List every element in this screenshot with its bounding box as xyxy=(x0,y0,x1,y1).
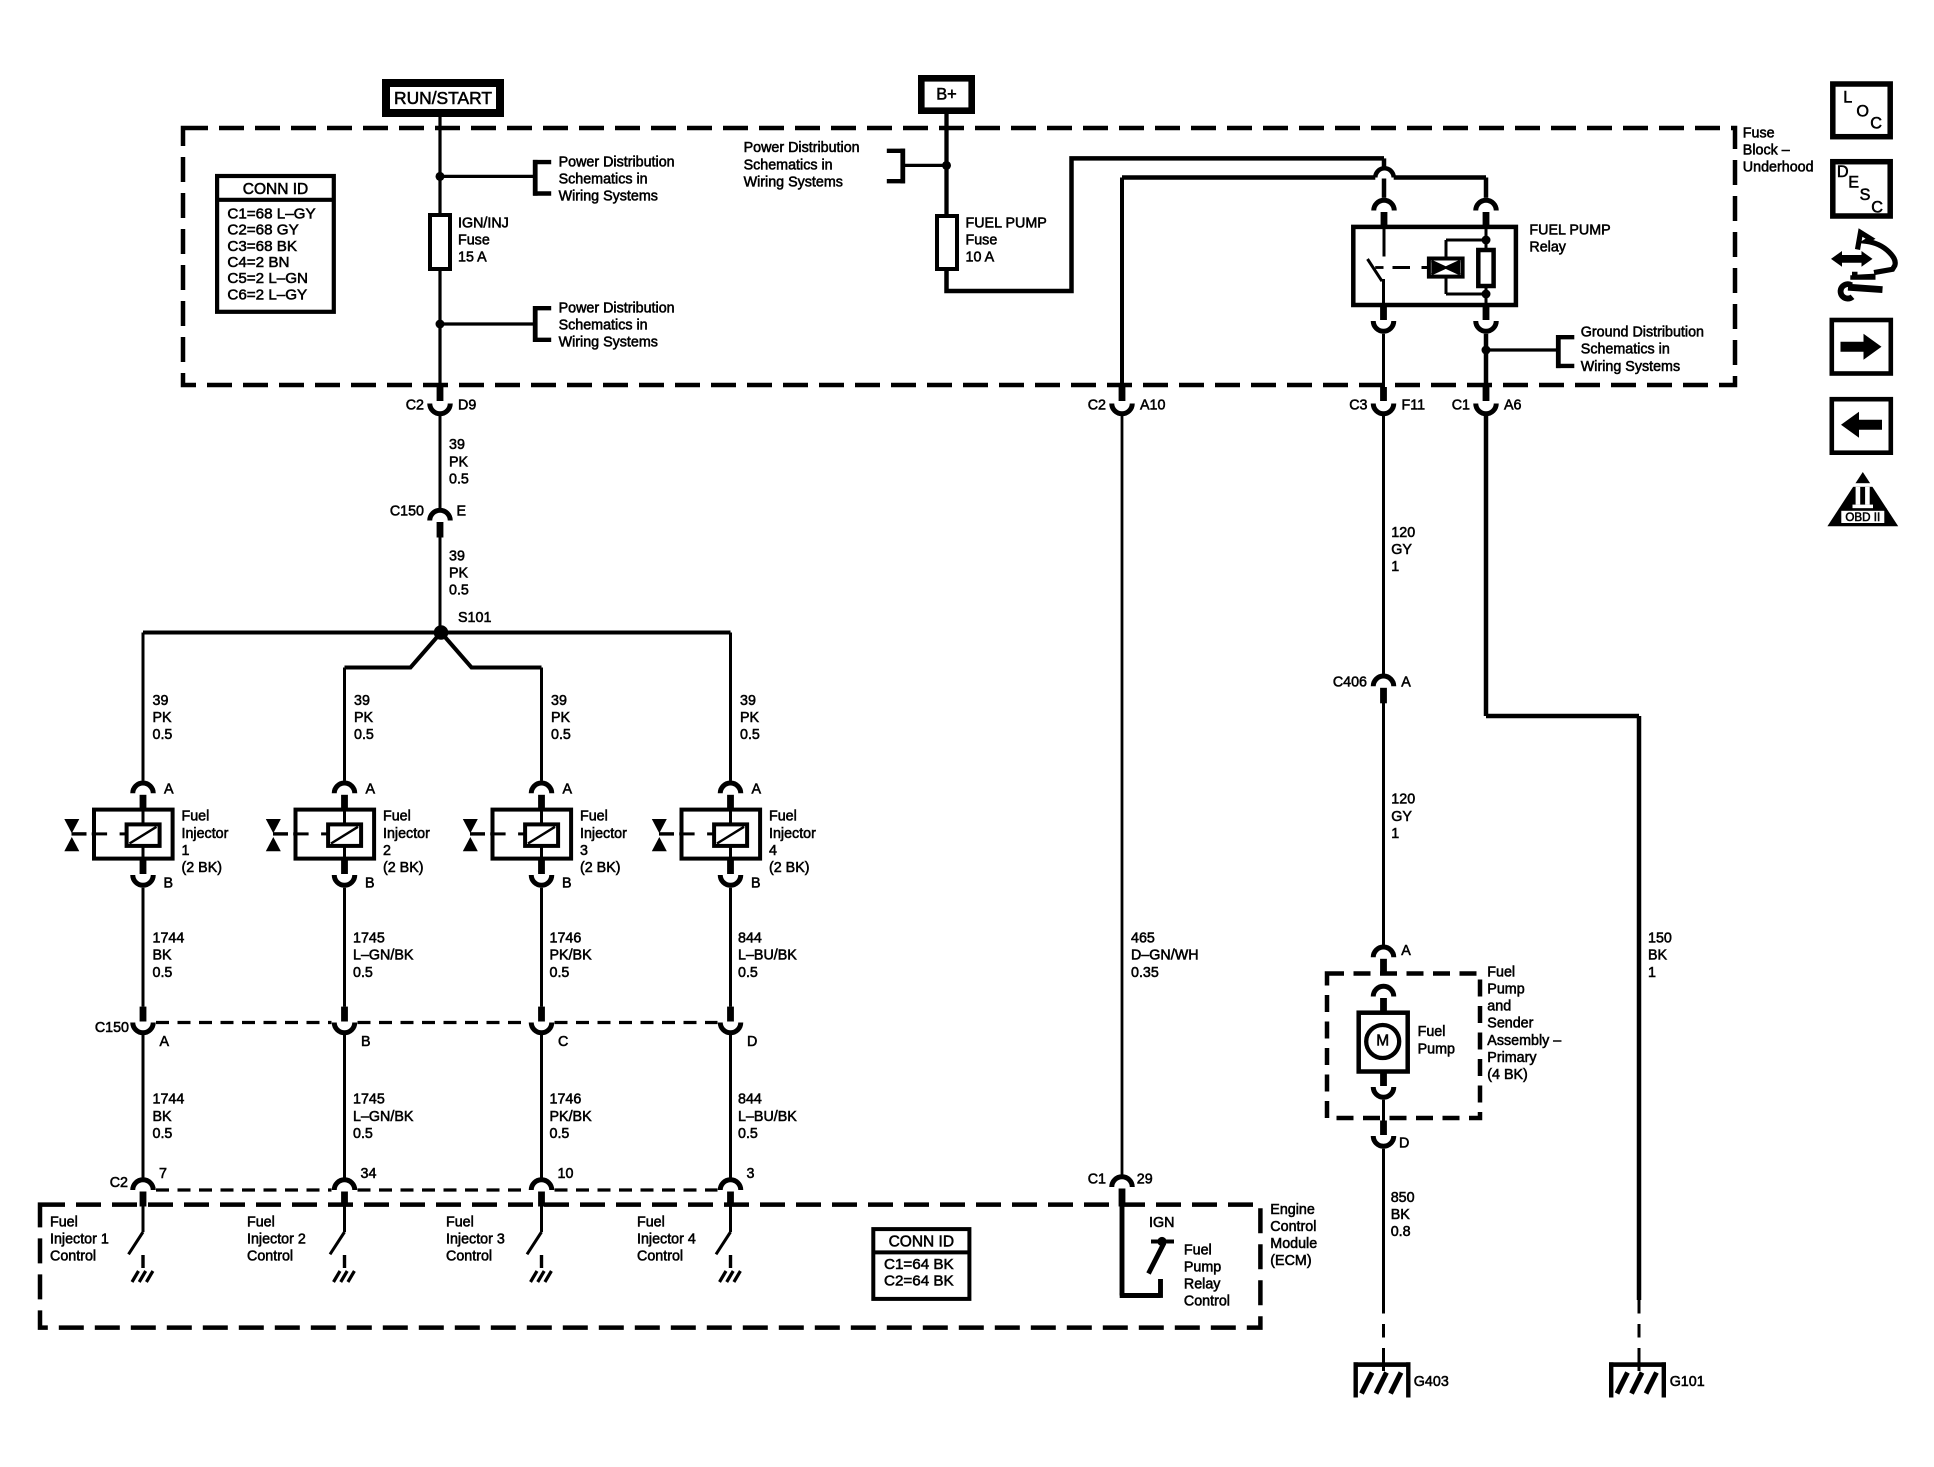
svg-text:1: 1 xyxy=(1391,559,1399,575)
svg-text:L: L xyxy=(1843,89,1852,107)
svg-text:Sender: Sender xyxy=(1487,1016,1533,1032)
svg-text:34: 34 xyxy=(361,1166,377,1182)
svg-text:Primary: Primary xyxy=(1487,1050,1537,1066)
svg-text:B: B xyxy=(751,876,761,892)
svg-text:0.5: 0.5 xyxy=(738,1126,758,1142)
connector injector 4 pin A xyxy=(720,781,761,810)
svg-text:0.5: 0.5 xyxy=(550,965,570,981)
svg-text:0.5: 0.5 xyxy=(354,727,374,743)
svg-text:C6=2 L–GY: C6=2 L–GY xyxy=(227,286,307,303)
svg-text:BK: BK xyxy=(1391,1207,1411,1223)
svg-text:A: A xyxy=(1401,674,1411,690)
svg-text:Injector: Injector xyxy=(580,826,627,842)
label Fuel Injector 4 Control xyxy=(637,1214,696,1264)
svg-text:1746: 1746 xyxy=(550,931,582,947)
connector C150 pin A xyxy=(133,1007,170,1050)
svg-text:844: 844 xyxy=(738,1092,762,1108)
svg-text:D: D xyxy=(747,1034,757,1050)
label IGN xyxy=(1149,1215,1174,1231)
svg-text:G101: G101 xyxy=(1670,1374,1705,1390)
svg-text:L–GN/BK: L–GN/BK xyxy=(353,948,414,964)
label Fuel Pump Relay Control xyxy=(1184,1242,1230,1309)
svg-text:A: A xyxy=(366,781,376,797)
svg-text:39: 39 xyxy=(449,437,465,453)
relay coil parallel wiring xyxy=(1446,240,1486,294)
svg-text:CONN ID: CONN ID xyxy=(243,181,308,198)
fuel pump and sender assembly dashed boundary xyxy=(1327,974,1480,1119)
connector injector 3 pin A xyxy=(531,781,572,810)
connector fuel pump internal (bottom) xyxy=(1373,1073,1394,1098)
svg-text:C: C xyxy=(1871,198,1883,216)
svg-text:C1=64 BK: C1=64 BK xyxy=(884,1256,954,1273)
svg-text:C150: C150 xyxy=(390,503,424,519)
svg-text:Control: Control xyxy=(1270,1219,1316,1235)
wire label 39 PK 0.5 (below C150 E) xyxy=(449,548,469,598)
svg-text:E: E xyxy=(1848,174,1859,192)
svg-text:G403: G403 xyxy=(1414,1374,1449,1390)
svg-text:Ground Distribution: Ground Distribution xyxy=(1581,325,1704,341)
connector C2 D9 xyxy=(406,387,477,414)
ground ECM injector 4 driver xyxy=(720,1255,741,1282)
node junction to ground distribution ref xyxy=(1482,346,1491,355)
wire label 850 BK 0.8 xyxy=(1391,1190,1415,1240)
splice S101 xyxy=(434,610,492,640)
connector fuel pump pin D xyxy=(1373,1121,1409,1152)
svg-text:C: C xyxy=(1870,115,1882,133)
ground G101 xyxy=(1609,1362,1705,1397)
svg-text:Fuel: Fuel xyxy=(1487,964,1515,980)
svg-text:(2 BK): (2 BK) xyxy=(580,860,621,876)
svg-text:Underhood: Underhood xyxy=(1743,160,1814,176)
injector 1 coil leads xyxy=(142,810,145,859)
svg-text:IGN/INJ: IGN/INJ xyxy=(458,215,509,231)
wire label 1746 PK/BK 0.5 (above C150) xyxy=(550,931,593,981)
svg-text:C1: C1 xyxy=(1452,397,1470,413)
node junction to power distribution ref (lower) xyxy=(436,320,445,329)
ECM injector 3 driver switch arm xyxy=(527,1232,542,1254)
off-page bracket (ground distribution) xyxy=(1556,335,1574,368)
svg-text:Control: Control xyxy=(247,1249,293,1265)
svg-text:Fuel: Fuel xyxy=(50,1214,78,1230)
svg-text:A: A xyxy=(1401,943,1411,959)
connector ECM C2 pin 10 xyxy=(531,1166,573,1207)
svg-text:29: 29 xyxy=(1137,1171,1153,1187)
ECM injector 4 driver lead xyxy=(729,1207,732,1233)
svg-text:1: 1 xyxy=(1391,826,1399,842)
wire label 39 PK 0.5 (injector 4) xyxy=(740,693,760,743)
label Fuel Pump xyxy=(1418,1024,1455,1057)
connector ECM C1 pin 29 xyxy=(1088,1171,1153,1206)
svg-text:PK: PK xyxy=(551,710,571,726)
svg-text:10: 10 xyxy=(558,1166,574,1182)
svg-text:0.5: 0.5 xyxy=(449,583,469,599)
connector C150 E xyxy=(390,503,466,537)
wire fuel pump to pin D xyxy=(1382,1100,1385,1121)
ground ECM injector 2 driver xyxy=(334,1255,355,1282)
svg-text:Fuel: Fuel xyxy=(383,809,411,825)
wire injector 3 to C150 xyxy=(540,888,543,1007)
wire drop to fuel injector 2 xyxy=(343,668,346,781)
connector row C2 dashed gang line xyxy=(156,1188,718,1191)
svg-text:RUN/START: RUN/START xyxy=(394,88,492,108)
wire C150 1 to ECM pin xyxy=(142,1035,145,1178)
svg-text:Control: Control xyxy=(446,1249,492,1265)
injector 3 actuation dashed link xyxy=(490,832,525,835)
svg-text:0.5: 0.5 xyxy=(153,1126,173,1142)
svg-text:A10: A10 xyxy=(1140,397,1165,413)
wire relay coil ground to C1 A6 xyxy=(1484,334,1489,387)
wire label 120 GY 1 (lower) xyxy=(1391,792,1415,842)
svg-text:0.35: 0.35 xyxy=(1131,965,1159,981)
wire S101 branch to injector 2 xyxy=(345,637,438,668)
label C2 (row) xyxy=(110,1175,128,1191)
svg-text:F11: F11 xyxy=(1402,397,1426,413)
connector relay pin 87 (to C3 F11) xyxy=(1373,307,1394,332)
svg-text:B+: B+ xyxy=(936,86,957,104)
svg-text:1744: 1744 xyxy=(153,931,185,947)
svg-text:Wiring Systems: Wiring Systems xyxy=(744,174,843,190)
injector 4 coil leads xyxy=(729,810,732,859)
svg-text:3: 3 xyxy=(580,843,588,859)
wire C3 F11 to C406 A xyxy=(1382,414,1385,676)
svg-text:39: 39 xyxy=(153,693,169,709)
wire 150 BK C1 A6 to G101 xyxy=(1486,414,1639,1300)
relay FUEL PUMP Relay outline xyxy=(1353,227,1516,305)
svg-text:C4=2 BN: C4=2 BN xyxy=(227,254,289,271)
svg-text:Pump: Pump xyxy=(1418,1041,1455,1057)
svg-text:FUEL PUMP: FUEL PUMP xyxy=(1529,222,1610,238)
svg-text:E: E xyxy=(457,503,467,519)
wire label 1745 L–GN/BK 0.5 (below C150) xyxy=(353,1092,414,1142)
svg-text:(4 BK): (4 BK) xyxy=(1487,1067,1528,1083)
svg-text:O: O xyxy=(1856,102,1869,120)
svg-text:C: C xyxy=(558,1034,568,1050)
wire label 1745 L–GN/BK 0.5 (above C150) xyxy=(353,931,414,981)
svg-text:Fuel: Fuel xyxy=(1184,1242,1212,1258)
svg-text:A: A xyxy=(752,781,762,797)
ECM injector 1 driver lead xyxy=(142,1207,145,1233)
ground ECM injector 3 driver xyxy=(531,1255,552,1282)
wire label 39 PK 0.5 (injector 3) xyxy=(551,693,571,743)
svg-text:1: 1 xyxy=(182,843,190,859)
wire C150 2 to ECM pin xyxy=(343,1035,346,1178)
connector injector 2 pin A xyxy=(334,781,375,810)
svg-text:PK: PK xyxy=(153,710,173,726)
connector C2 A10 xyxy=(1088,387,1166,414)
wire dashed drop to G101 xyxy=(1638,1300,1641,1371)
wire label 39 PK 0.5 (injector 1) xyxy=(153,693,173,743)
wire to power distribution reference (B+) xyxy=(905,164,947,167)
relay switch input lead xyxy=(1383,227,1386,257)
relay switch contact xyxy=(1368,259,1384,305)
connector C150 pin C xyxy=(531,1007,568,1050)
svg-text:Fuel: Fuel xyxy=(580,809,608,825)
fuel injector 4 body xyxy=(682,810,761,859)
wire drop to fuel injector 3 xyxy=(540,668,543,781)
svg-text:0.5: 0.5 xyxy=(449,471,469,487)
svg-text:3: 3 xyxy=(747,1166,755,1182)
label Power Distribution Schematics in Wiring Systems (B+) xyxy=(744,140,860,190)
svg-text:GY: GY xyxy=(1391,809,1412,825)
svg-text:C2=68 GY: C2=68 GY xyxy=(227,222,298,239)
connector C150 pin D xyxy=(720,1007,757,1050)
svg-text:1745: 1745 xyxy=(353,931,385,947)
wire label 1744 BK 0.5 (above C150) xyxy=(153,931,185,981)
svg-text:0.5: 0.5 xyxy=(740,727,760,743)
svg-text:IGN: IGN xyxy=(1149,1215,1174,1231)
injector 4 solenoid coil xyxy=(714,824,747,846)
connector C1 A6 xyxy=(1452,387,1522,414)
label Power Distribution Schematics in Wiring Systems (lower) xyxy=(559,300,675,350)
svg-text:(2 BK): (2 BK) xyxy=(182,860,223,876)
ground G403 xyxy=(1354,1362,1449,1397)
svg-text:0.5: 0.5 xyxy=(738,965,758,981)
svg-text:Power Distribution: Power Distribution xyxy=(744,140,860,156)
connector injector 3 pin B xyxy=(531,860,571,892)
wire B+ to FUEL PUMP fuse xyxy=(944,114,948,216)
label Fuel Injector 2 (2 BK) xyxy=(383,809,430,876)
svg-text:7: 7 xyxy=(159,1166,167,1182)
svg-text:Block –: Block – xyxy=(1743,143,1790,159)
svg-text:S: S xyxy=(1860,186,1871,204)
svg-text:S101: S101 xyxy=(458,610,491,626)
svg-text:2: 2 xyxy=(383,843,391,859)
wire to ground distribution reference xyxy=(1486,348,1556,351)
svg-text:Pump: Pump xyxy=(1184,1260,1221,1276)
svg-text:L–BU/BK: L–BU/BK xyxy=(738,1109,797,1125)
wire S101 branch to injector 3 xyxy=(445,637,542,668)
svg-text:FUEL PUMP: FUEL PUMP xyxy=(966,215,1047,231)
wire relay output to C3 F11 xyxy=(1382,334,1385,387)
svg-text:D: D xyxy=(1399,1135,1409,1151)
svg-text:1746: 1746 xyxy=(550,1092,582,1108)
injector 4 actuation dashed link xyxy=(679,832,714,835)
svg-text:844: 844 xyxy=(738,931,762,947)
svg-text:CONN ID: CONN ID xyxy=(889,1233,954,1250)
wire relay coil feed with crossover hop to C2 A10 xyxy=(1122,168,1486,387)
svg-text:15 A: 15 A xyxy=(458,250,487,266)
ground ECM injector 1 driver xyxy=(132,1255,153,1282)
svg-text:PK: PK xyxy=(449,454,469,470)
injector 2 solenoid coil xyxy=(328,824,361,846)
fuel injector 1 body xyxy=(94,810,173,859)
svg-text:C2: C2 xyxy=(1088,397,1106,413)
label C150 (row) xyxy=(95,1020,129,1036)
svg-text:and: and xyxy=(1487,999,1511,1015)
svg-text:Relay: Relay xyxy=(1184,1277,1221,1293)
ECM fuel pump relay control switch xyxy=(1149,1237,1175,1274)
svg-text:Fuel: Fuel xyxy=(182,809,210,825)
svg-text:Fuel: Fuel xyxy=(637,1214,665,1230)
svg-text:39: 39 xyxy=(449,548,465,564)
svg-text:(2 BK): (2 BK) xyxy=(383,860,424,876)
injector 1 nozzle symbol xyxy=(64,819,86,851)
svg-text:Fuel: Fuel xyxy=(1418,1024,1446,1040)
icon OBD II xyxy=(1827,472,1898,526)
wire injector 1 to C150 xyxy=(142,888,145,1007)
svg-text:Schematics in: Schematics in xyxy=(744,157,833,173)
table CONN ID (fuse block connectors) xyxy=(217,176,334,312)
wire IGN/INJ fuse to C2 D9 xyxy=(438,269,441,387)
svg-text:A: A xyxy=(563,781,573,797)
table CONN ID (ECM connectors) xyxy=(873,1229,969,1299)
svg-text:BK: BK xyxy=(153,1109,173,1125)
ECM injector 1 driver switch arm xyxy=(129,1232,144,1254)
icon back arrow box xyxy=(1832,399,1891,453)
wire C150 E to splice S101 xyxy=(439,538,442,633)
svg-text:C5=2 L–GN: C5=2 L–GN xyxy=(227,270,308,287)
svg-text:Injector 2: Injector 2 xyxy=(247,1232,306,1248)
off-page bracket (upper power distribution) xyxy=(533,160,551,196)
icon LOC box xyxy=(1833,84,1890,137)
ECM injector 3 driver lead xyxy=(540,1207,543,1233)
wire label 150 BK 1 xyxy=(1648,931,1672,981)
svg-text:Schematics in: Schematics in xyxy=(559,171,648,187)
svg-text:L–GN/BK: L–GN/BK xyxy=(353,1109,414,1125)
svg-text:B: B xyxy=(365,876,375,892)
wire drop to fuel injector 1 xyxy=(142,633,145,781)
label Fuel Injector 4 (2 BK) xyxy=(769,809,816,876)
node junction to power distribution ref (B+) xyxy=(942,161,951,170)
icon DESC box xyxy=(1833,162,1890,217)
svg-text:C3=68 BK: C3=68 BK xyxy=(227,238,297,255)
wire injector 2 to C150 xyxy=(343,888,346,1007)
svg-text:A6: A6 xyxy=(1504,397,1522,413)
svg-text:L–BU/BK: L–BU/BK xyxy=(738,948,797,964)
connector C150 pin B xyxy=(334,1007,370,1050)
svg-text:10 A: 10 A xyxy=(966,250,995,266)
svg-text:C2: C2 xyxy=(406,397,424,413)
svg-text:Fuel: Fuel xyxy=(247,1214,275,1230)
label Fuel Injector 2 Control xyxy=(247,1214,306,1264)
label Fuel Injector 3 Control xyxy=(446,1214,505,1264)
label Fuel Injector 1 (2 BK) xyxy=(182,809,229,876)
svg-text:M: M xyxy=(1376,1033,1389,1050)
connector row C150 dashed gang line xyxy=(156,1021,718,1024)
svg-text:C150: C150 xyxy=(95,1020,129,1036)
injector 1 actuation dashed link xyxy=(92,832,127,835)
connector injector 1 pin B xyxy=(133,860,173,892)
svg-text:Fuse: Fuse xyxy=(1743,126,1775,142)
svg-text:Power Distribution: Power Distribution xyxy=(559,300,675,316)
fuel pump motor leads xyxy=(1382,1013,1385,1071)
node relay coil/resistor top junction xyxy=(1482,236,1491,245)
svg-text:Power Distribution: Power Distribution xyxy=(559,154,675,170)
wire drop to fuel injector 4 xyxy=(729,633,732,781)
connector C406 A xyxy=(1333,674,1411,703)
svg-text:GY: GY xyxy=(1391,542,1412,558)
motor fuel pump (M) xyxy=(1359,1013,1408,1072)
svg-text:C2=64 BK: C2=64 BK xyxy=(884,1273,954,1290)
injector 1 solenoid coil xyxy=(127,824,160,846)
wire RUN/START to IGN/INJ fuse xyxy=(438,117,441,215)
svg-text:D–GN/WH: D–GN/WH xyxy=(1131,948,1199,964)
svg-text:0.5: 0.5 xyxy=(551,727,571,743)
wire label 1746 PK/BK 0.5 (below C150) xyxy=(550,1092,593,1142)
svg-text:Control: Control xyxy=(1184,1294,1230,1310)
svg-text:A: A xyxy=(164,781,174,797)
label Fuel Injector 3 (2 BK) xyxy=(580,809,627,876)
svg-text:0.5: 0.5 xyxy=(153,965,173,981)
svg-text:Injector: Injector xyxy=(383,826,430,842)
svg-text:C406: C406 xyxy=(1333,674,1367,690)
svg-text:C1: C1 xyxy=(1088,1171,1106,1187)
svg-text:Schematics in: Schematics in xyxy=(559,318,648,334)
svg-text:Injector 1: Injector 1 xyxy=(50,1232,109,1248)
svg-text:Injector: Injector xyxy=(182,826,229,842)
svg-text:150: 150 xyxy=(1648,931,1672,947)
svg-text:Control: Control xyxy=(50,1249,96,1265)
svg-text:Fuse: Fuse xyxy=(966,233,998,249)
fuel injector 3 body xyxy=(493,810,572,859)
svg-text:1: 1 xyxy=(1648,965,1656,981)
wire label 465 D-GN/WH 0.35 xyxy=(1131,931,1199,981)
wire to power distribution reference (upper) xyxy=(440,175,533,178)
svg-text:PK: PK xyxy=(354,710,374,726)
off-page bracket (lower power distribution) xyxy=(533,306,551,342)
connector ECM C2 pin 3 xyxy=(720,1166,754,1207)
connector relay pin 85 (to C1 A6) xyxy=(1476,307,1497,332)
svg-text:BK: BK xyxy=(1648,948,1668,964)
svg-text:0.5: 0.5 xyxy=(153,727,173,743)
relay coil-side internal lead xyxy=(1485,227,1488,305)
label FUEL PUMP Relay xyxy=(1529,222,1610,255)
wire label 844 L–BU/BK 0.5 (below C150) xyxy=(738,1092,797,1142)
label Power Distribution Schematics in Wiring Systems (upper) xyxy=(559,154,675,204)
connector C3 F11 xyxy=(1349,387,1425,414)
svg-text:D: D xyxy=(1837,163,1849,181)
svg-text:39: 39 xyxy=(740,693,756,709)
svg-text:Engine: Engine xyxy=(1270,1202,1315,1218)
icon forward arrow box xyxy=(1832,320,1891,374)
connector ECM C2 pin 34 xyxy=(334,1166,376,1207)
svg-text:Pump: Pump xyxy=(1487,982,1524,998)
injector 2 nozzle symbol xyxy=(266,819,288,851)
wire FUEL PUMP fuse to relay switch pin (routed) xyxy=(947,158,1385,291)
svg-text:Fuel: Fuel xyxy=(446,1214,474,1230)
svg-text:C3: C3 xyxy=(1349,397,1367,413)
svg-text:0.5: 0.5 xyxy=(353,1126,373,1142)
B+ power tag box xyxy=(921,78,971,110)
svg-text:C1=68 L–GY: C1=68 L–GY xyxy=(227,205,315,222)
icon vehicle service reference xyxy=(1831,233,1895,299)
ECM injector 2 driver switch arm xyxy=(330,1232,345,1254)
wire label 39 PK 0.5 (injector 2) xyxy=(354,693,374,743)
svg-text:120: 120 xyxy=(1391,525,1415,541)
svg-text:Schematics in: Schematics in xyxy=(1581,342,1670,358)
svg-text:C2: C2 xyxy=(110,1175,128,1191)
svg-text:BK: BK xyxy=(153,948,173,964)
relay coil (box with X) xyxy=(1429,259,1463,277)
connector relay pin 30 (switch input) xyxy=(1374,200,1395,227)
svg-text:Injector 4: Injector 4 xyxy=(637,1232,696,1248)
connector fuel pump pin A xyxy=(1373,943,1411,974)
wire C2 D9 to C150 E xyxy=(439,414,442,510)
node relay coil/resistor bottom junction xyxy=(1482,290,1491,299)
wire C406 A to fuel pump A xyxy=(1382,703,1385,946)
ECM injector 2 driver lead xyxy=(343,1207,346,1233)
connector injector 4 pin B xyxy=(720,860,760,892)
svg-text:PK/BK: PK/BK xyxy=(550,948,593,964)
node junction to power distribution ref (upper) xyxy=(436,172,445,181)
off-page bracket (B+ power distribution) xyxy=(887,149,905,184)
label Engine Control Module (ECM) xyxy=(1270,1202,1317,1269)
svg-text:Relay: Relay xyxy=(1529,239,1566,255)
label Ground Distribution Schematics in Wiring Systems xyxy=(1581,325,1704,375)
injector 3 nozzle symbol xyxy=(463,819,485,851)
wire dashed drop to G403 xyxy=(1382,1300,1385,1371)
svg-text:B: B xyxy=(361,1034,371,1050)
